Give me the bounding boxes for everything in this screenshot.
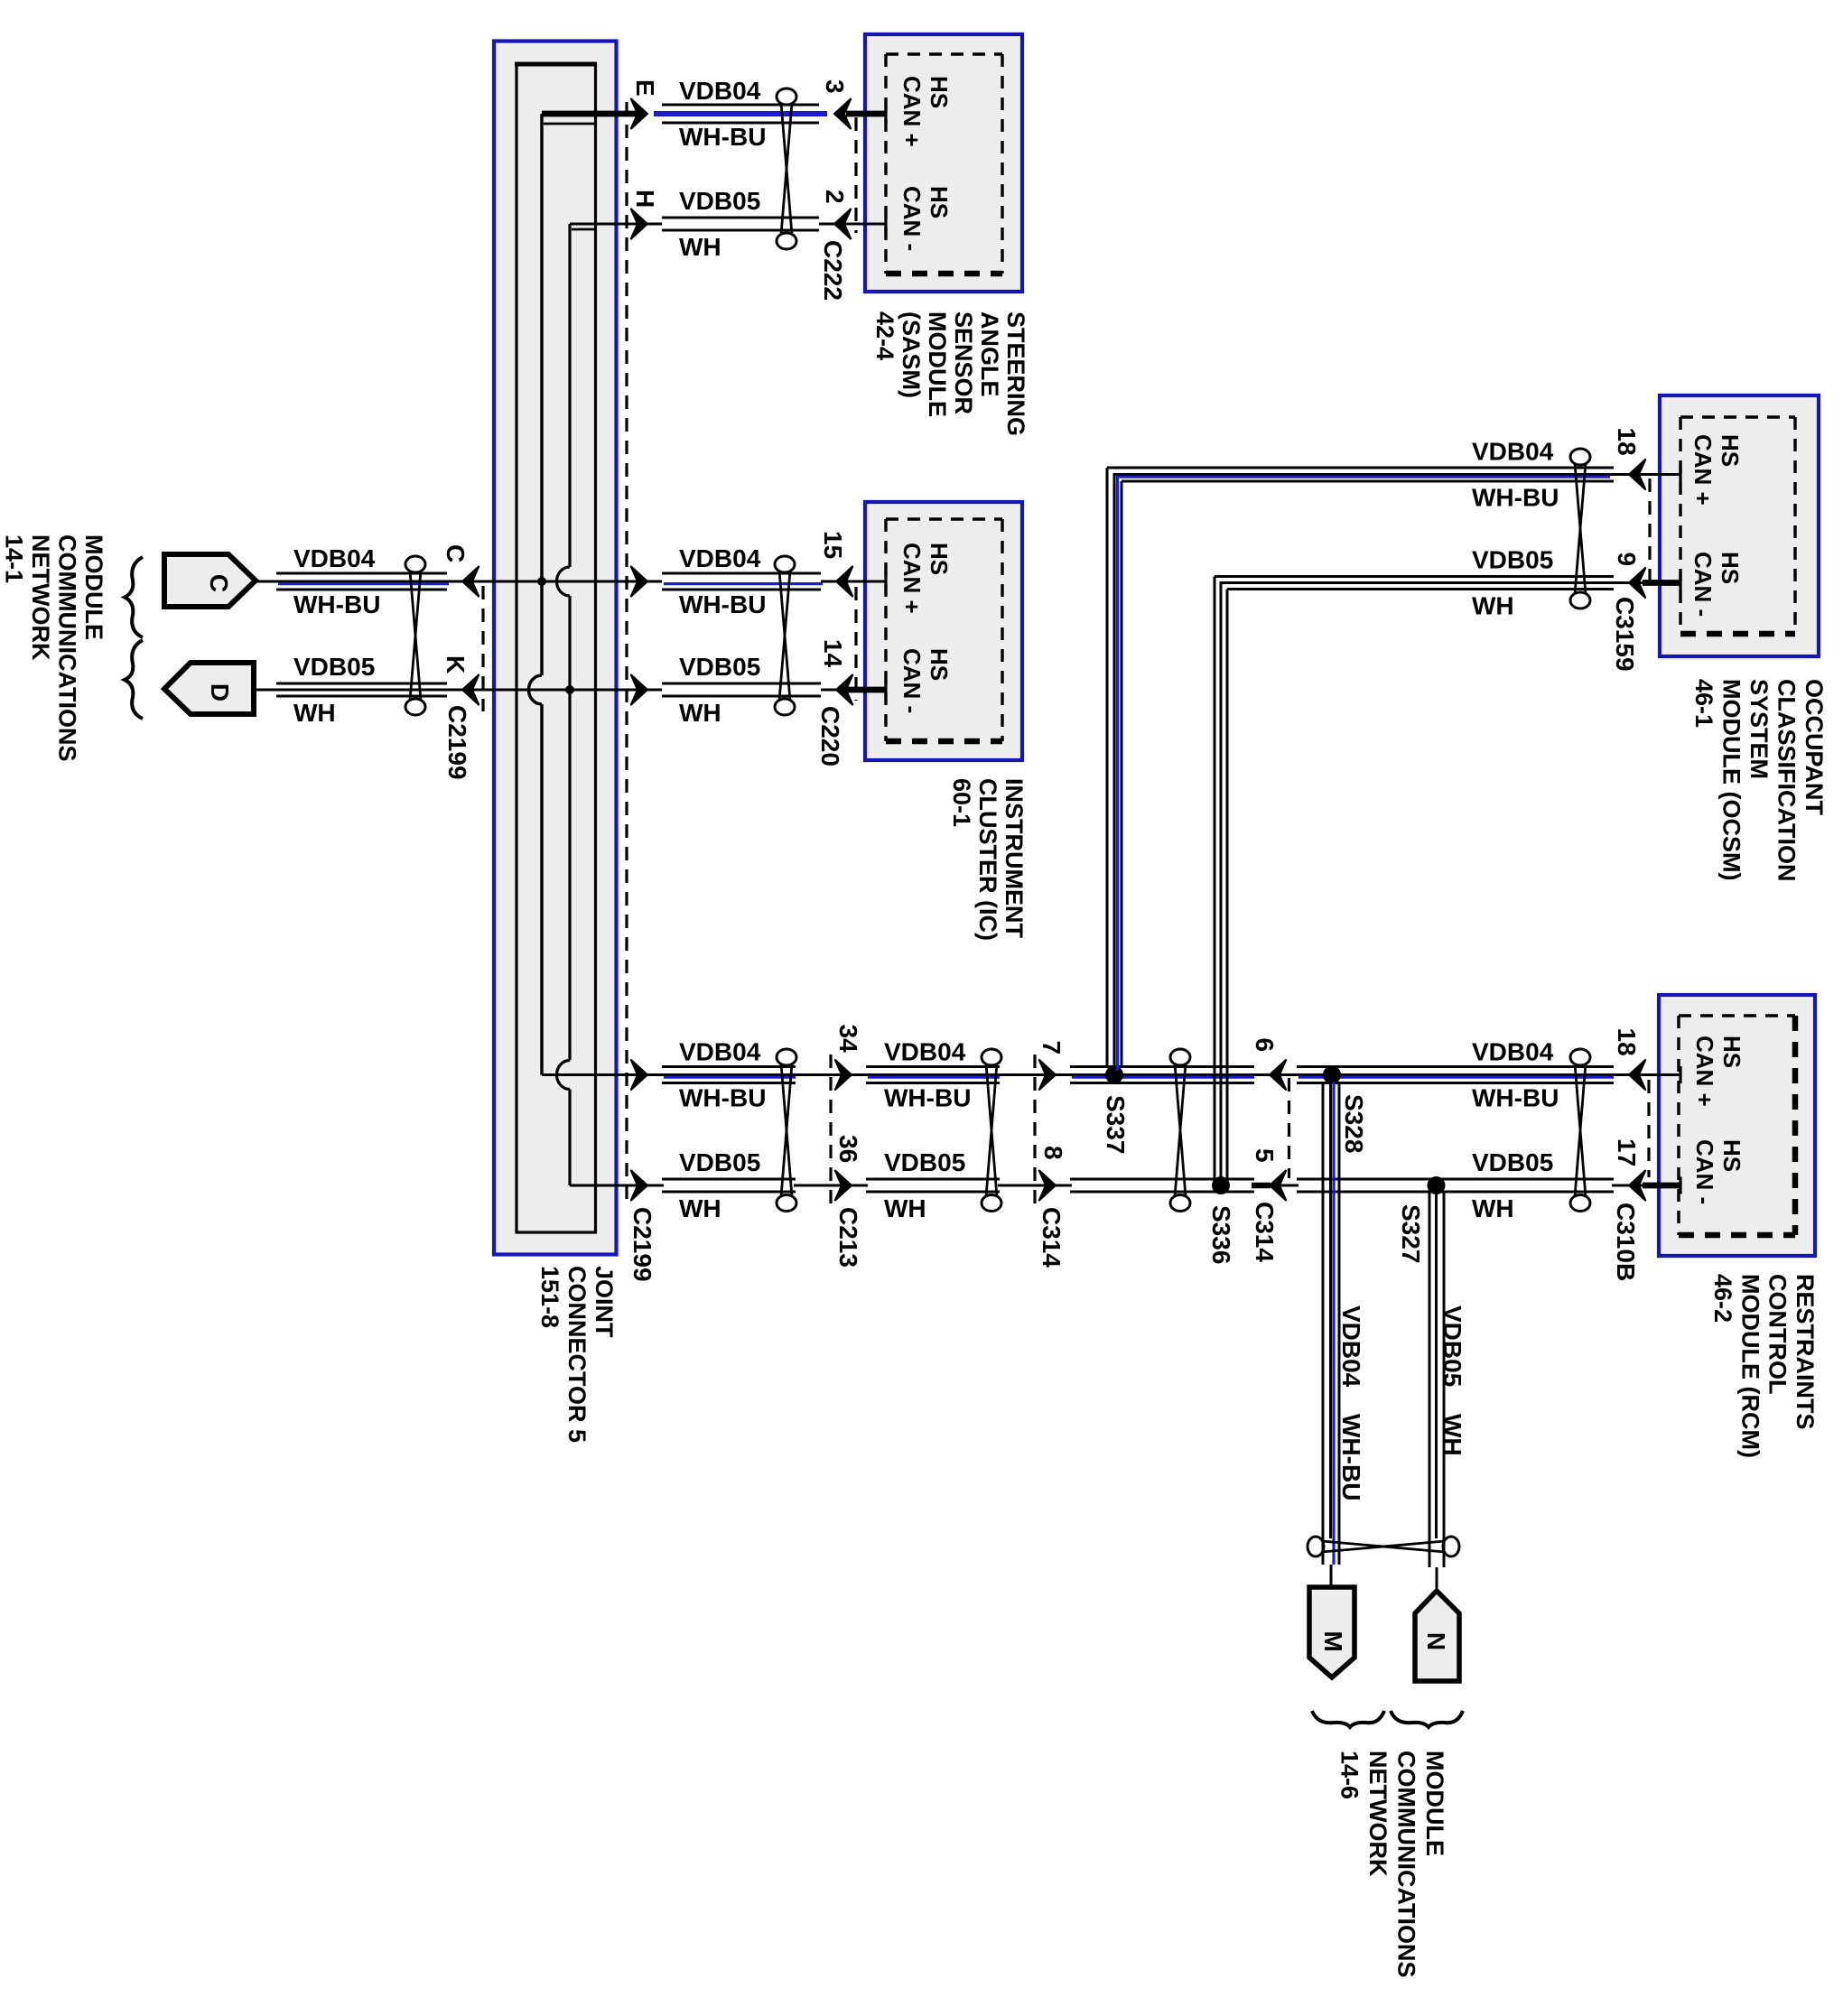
svg-text:42-4: 42-4 <box>871 311 898 360</box>
wire VDB05 to OCSM center <box>1221 583 1616 1179</box>
svg-text:CLASSIFICATION: CLASSIFICATION <box>1773 679 1801 882</box>
svg-text:WH-BU: WH-BU <box>679 1084 766 1112</box>
arrow at C2199 pin K <box>462 674 479 705</box>
wire VDB05 J span4 outlines <box>1297 1178 1614 1181</box>
wire VDB04 drop from S328 center <box>1329 1075 1332 1539</box>
wire VDB04 D span1 outlines <box>662 1065 796 1068</box>
wire VDB05 K outlines left span <box>276 683 447 685</box>
svg-text:RESTRAINTS: RESTRAINTS <box>1792 1274 1819 1430</box>
off-page connector M <box>1309 1587 1354 1677</box>
arrow at pin J <box>631 1170 648 1201</box>
twisted pair symbol C314 first <box>982 1049 1001 1065</box>
arrow at pin H <box>631 209 648 239</box>
svg-text:VDB05: VDB05 <box>679 187 760 215</box>
wire stub into SASM pin 2 <box>819 223 886 226</box>
off-page connector D <box>164 663 254 714</box>
svg-text:HS: HS <box>1718 1036 1745 1068</box>
wire VDB04 D span4 blue <box>1298 1075 1614 1078</box>
wire VDB04 D span4 outlines <box>1297 1065 1614 1068</box>
joint connector bus companion line H <box>572 228 594 231</box>
svg-text:STEERING: STEERING <box>1002 311 1029 436</box>
twisted pair symbol C2199 <box>405 556 425 572</box>
svg-text:ANGLE: ANGLE <box>976 311 1003 397</box>
bus VDB05 hop over wire D <box>557 1061 571 1090</box>
wire VDB04 C outlines left span <box>276 572 447 575</box>
twisted pair symbol C314 second <box>1170 1049 1190 1065</box>
svg-text:MODULE (RCM): MODULE (RCM) <box>1736 1274 1764 1458</box>
svg-text:WH: WH <box>293 699 336 727</box>
svg-text:VDB04: VDB04 <box>679 544 761 572</box>
svg-text:INSTRUMENT: INSTRUMENT <box>1001 778 1028 938</box>
svg-text:WH: WH <box>1472 592 1514 620</box>
wire VDB04 E to SASM bold blue <box>654 111 827 116</box>
svg-text:HS: HS <box>926 648 953 681</box>
svg-text:WH: WH <box>679 699 721 727</box>
wire VDB04 center C to IC <box>256 581 662 583</box>
svg-text:60-1: 60-1 <box>948 778 975 827</box>
off-page connector C <box>164 554 256 607</box>
svg-text:COMMUNICATIONS: COMMUNICATIONS <box>54 534 81 761</box>
arrow at C314 pin 8 <box>1039 1170 1056 1201</box>
svg-text:D: D <box>206 683 234 701</box>
wire VDB04 center row D <box>542 1073 1644 1076</box>
svg-text:WH: WH <box>1472 1194 1514 1222</box>
svg-text:C222: C222 <box>819 240 847 301</box>
wire VDB05 drop from S327 center <box>1435 1185 1438 1538</box>
twisted pair symbol C220 <box>775 556 795 572</box>
pin tick SASM 3 <box>884 106 887 123</box>
pin tick IC 14 <box>884 682 887 699</box>
pin tick RCM 17 <box>1679 1177 1681 1194</box>
arrow at pin E <box>631 98 648 129</box>
svg-text:HS: HS <box>1717 434 1744 467</box>
wire VDB05 to OCSM outlines horizontal <box>1215 575 1614 578</box>
svg-text:MODULE: MODULE <box>80 534 107 640</box>
svg-text:CAN +: CAN + <box>1689 434 1717 506</box>
bus VDB04 hop over wire K-M <box>529 675 543 704</box>
pin tick RCM 18 <box>1679 1066 1681 1083</box>
svg-text:VDB04: VDB04 <box>679 1038 761 1066</box>
splice S336 <box>1212 1176 1230 1194</box>
wire VDB04 bold segment joint connector to arrow E <box>542 111 645 117</box>
svg-text:CAN -: CAN - <box>898 648 926 713</box>
wire VDB04 drop blue <box>1332 1082 1335 1565</box>
dashed connector face C2199 right side of joint connector <box>625 102 628 1203</box>
dashed connector face C3159 <box>1648 478 1651 589</box>
twisted pair symbol SASM <box>777 88 796 105</box>
wire VDB05 center D to IC <box>254 689 662 692</box>
svg-text:WH-BU: WH-BU <box>1472 484 1559 512</box>
svg-text:WH-BU: WH-BU <box>293 590 380 618</box>
svg-text:E: E <box>631 79 659 97</box>
arrow at IC pin 14 <box>836 674 853 705</box>
module box RCM <box>1659 995 1815 1256</box>
svg-text:SYSTEM: SYSTEM <box>1745 679 1773 779</box>
pin tick OCSM 18 <box>1679 466 1681 483</box>
svg-text:C2199: C2199 <box>443 705 471 780</box>
svg-text:14-1: 14-1 <box>1 534 28 583</box>
wire VDB05 M outlines <box>662 683 821 685</box>
wire VDB05 J span2 outlines <box>866 1178 1000 1181</box>
wire VDB04 to OCSM blue <box>1118 477 1611 1070</box>
svg-text:WH-BU: WH-BU <box>679 590 766 618</box>
module OCSM inner dashed outline <box>1680 415 1795 418</box>
wire VDB04 D span2 blue <box>868 1075 1000 1078</box>
arrow at SASM pin 3 <box>834 98 852 129</box>
module IC inner dashed outline <box>886 517 1002 520</box>
bus VDB05 inside joint connector <box>568 224 571 567</box>
splice S328 <box>1323 1066 1341 1084</box>
svg-text:N: N <box>1422 1632 1450 1650</box>
pin tick IC 15 <box>884 573 887 590</box>
harness brace bottom right <box>1391 1711 1463 1727</box>
arrow at pin A <box>631 566 648 597</box>
wire stub into RCM pin 18 <box>1614 1073 1680 1076</box>
joint connector bus companion line E <box>544 123 594 125</box>
wire VDB05 drop outlines <box>1429 1193 1431 1567</box>
svg-text:HS: HS <box>926 543 953 575</box>
dashed connector face C310B <box>1647 1080 1650 1177</box>
harness brace lower <box>125 640 143 719</box>
svg-text:18: 18 <box>1613 1028 1641 1056</box>
wire VDB04 to OCSM outlines horizontal <box>1107 467 1614 469</box>
wire VDB04 to OCSM center <box>1114 475 1680 1071</box>
svg-text:VDB05: VDB05 <box>1472 1148 1553 1176</box>
splice S337 <box>1105 1066 1123 1084</box>
svg-text:151-8: 151-8 <box>536 1266 563 1328</box>
svg-text:MODULE: MODULE <box>924 311 951 417</box>
wire VDB05 J segment from bus <box>570 1185 664 1187</box>
bus VDB05 hop over wire A <box>557 567 571 596</box>
svg-text:6: 6 <box>1251 1038 1279 1053</box>
wire VDB04 OCSM vertical outlines <box>1106 468 1109 1067</box>
svg-text:S328: S328 <box>1340 1094 1368 1153</box>
svg-text:(SASM): (SASM) <box>898 311 925 398</box>
svg-text:S336: S336 <box>1207 1205 1235 1264</box>
arrow at C213 pin 34 <box>835 1060 852 1091</box>
svg-text:C: C <box>442 544 470 562</box>
svg-text:WH-BU: WH-BU <box>1337 1414 1365 1500</box>
svg-text:CAN +: CAN + <box>898 543 926 614</box>
svg-text:MODULE (OCSM): MODULE (OCSM) <box>1718 679 1745 880</box>
arrow at OCSM pin 18 <box>1629 460 1646 490</box>
arrow at pin D <box>631 1060 648 1091</box>
svg-text:VDB04: VDB04 <box>884 1038 966 1066</box>
svg-text:18: 18 <box>1613 428 1641 456</box>
svg-text:JOINT: JOINT <box>591 1266 618 1338</box>
svg-text:WH-BU: WH-BU <box>679 123 766 151</box>
svg-text:VDB05: VDB05 <box>679 653 760 681</box>
wire VDB05 J span3 outlines <box>1070 1178 1254 1181</box>
svg-text:C: C <box>205 574 233 592</box>
svg-text:WH: WH <box>1438 1414 1466 1456</box>
wire stub into OCSM pin 9 <box>1612 581 1649 584</box>
dashed connector face C314 first <box>1033 1054 1036 1208</box>
svg-text:WH-BU: WH-BU <box>1472 1084 1559 1112</box>
svg-text:VDB05: VDB05 <box>884 1148 965 1176</box>
twisted pair symbol C3159 <box>1570 449 1590 465</box>
module box IC <box>865 502 1022 760</box>
wire bold stub into RCM pin 17 <box>1643 1183 1680 1189</box>
wire VDB04 D span3 blue <box>1072 1075 1254 1078</box>
wire VDB05 J span1 outlines <box>662 1178 796 1181</box>
svg-text:S327: S327 <box>1397 1204 1425 1263</box>
svg-text:HS: HS <box>1718 1139 1745 1172</box>
svg-text:34: 34 <box>834 1025 862 1054</box>
module box OCSM <box>1660 395 1819 656</box>
svg-text:WH: WH <box>679 1194 721 1222</box>
dashed connector face C220 <box>854 587 857 701</box>
bus VDB04 inside joint connector <box>540 114 544 675</box>
wire VDB05 H segment from bus <box>570 223 662 226</box>
pin tick OCSM 9 <box>1679 574 1681 591</box>
svg-text:SENSOR: SENSOR <box>950 311 977 414</box>
svg-text:NETWORK: NETWORK <box>27 534 54 661</box>
svg-text:VDB05: VDB05 <box>1438 1305 1466 1387</box>
svg-text:OCCUPANT: OCCUPANT <box>1801 679 1828 815</box>
wire VDB05 J link1 <box>794 1185 868 1187</box>
svg-text:17: 17 <box>1613 1138 1641 1166</box>
pin tick SASM 2 <box>884 216 887 233</box>
svg-text:K: K <box>442 655 470 674</box>
svg-text:M: M <box>1319 1630 1347 1651</box>
module SASM inner dashed outline <box>886 52 1002 55</box>
wire VDB05 J link3 <box>1252 1185 1298 1187</box>
harness brace bottom left <box>1312 1711 1384 1727</box>
svg-text:VDB05: VDB05 <box>293 653 375 681</box>
module box SASM <box>865 34 1022 292</box>
svg-text:NETWORK: NETWORK <box>1364 1751 1392 1877</box>
svg-text:VDB04: VDB04 <box>679 77 761 105</box>
svg-text:MODULE: MODULE <box>1421 1751 1448 1856</box>
svg-text:46-1: 46-1 <box>1690 679 1717 728</box>
svg-text:C310B: C310B <box>1612 1203 1640 1281</box>
svg-text:VDB04: VDB04 <box>1472 1038 1554 1066</box>
svg-text:C213: C213 <box>834 1207 862 1268</box>
arrow at SASM pin 2 <box>834 209 852 239</box>
svg-text:VDB04: VDB04 <box>1337 1305 1365 1388</box>
harness brace upper <box>125 557 143 637</box>
svg-text:WH: WH <box>679 233 721 261</box>
wire VDB04 A blue <box>664 582 823 585</box>
arrow at RCM pin 17 <box>1629 1170 1646 1201</box>
svg-text:C2199: C2199 <box>628 1207 656 1282</box>
wire bold stub into SASM pin 3 <box>846 111 886 117</box>
svg-text:HS: HS <box>1717 552 1744 584</box>
wire stub into IC pin 14 <box>821 689 854 692</box>
dashed connector face C314 second <box>1288 1078 1290 1178</box>
svg-text:46-2: 46-2 <box>1709 1274 1736 1323</box>
svg-text:8: 8 <box>1039 1146 1067 1160</box>
svg-text:7: 7 <box>1038 1041 1066 1055</box>
svg-text:CAN -: CAN - <box>898 186 926 251</box>
svg-text:HS: HS <box>926 186 953 218</box>
dashed connector face C2199 left <box>481 586 484 711</box>
arrow at C314 pin 5 <box>1270 1170 1287 1201</box>
wire VDB04 D span2 outlines <box>866 1065 1000 1068</box>
dashed connector face C213 <box>829 1054 832 1208</box>
svg-text:36: 36 <box>834 1135 862 1163</box>
wire VDB04 D span3 outlines <box>1070 1065 1254 1068</box>
wire bold stub into IC pin 14 <box>848 687 886 693</box>
svg-text:CONTROL: CONTROL <box>1764 1274 1792 1394</box>
wire VDB04 A outlines <box>662 572 821 575</box>
svg-text:3: 3 <box>821 79 849 94</box>
module RCM inner dashed outline <box>1679 1014 1795 1017</box>
arrow at IC pin 15 <box>836 566 853 597</box>
svg-text:CAN +: CAN + <box>1691 1036 1718 1107</box>
svg-text:C314: C314 <box>1251 1202 1279 1262</box>
svg-text:COMMUNICATIONS: COMMUNICATIONS <box>1393 1751 1420 1977</box>
wire VDB05 tail to N <box>1436 1567 1438 1593</box>
svg-text:CONNECTOR 5: CONNECTOR 5 <box>563 1266 591 1443</box>
wire VDB05 OCSM vertical outlines <box>1214 577 1216 1179</box>
svg-text:CLUSTER (IC): CLUSTER (IC) <box>974 778 1001 941</box>
svg-text:C3159: C3159 <box>1611 597 1639 672</box>
joint connector inner top edge bold <box>515 62 597 67</box>
junction bus VDB05 / wire M <box>565 685 574 694</box>
svg-text:CAN -: CAN - <box>1691 1139 1718 1204</box>
arrow at C213 pin 36 <box>835 1170 852 1201</box>
wire bold stub at C314 pin 5 <box>1252 1183 1271 1189</box>
svg-text:14-6: 14-6 <box>1336 1751 1364 1799</box>
wire VDB04 C blue left span <box>278 582 449 585</box>
twisted pair symbol C213 <box>777 1049 796 1065</box>
svg-text:15: 15 <box>819 531 847 559</box>
arrow at OCSM pin 9 <box>1629 568 1646 599</box>
wire VDB04 E to SASM outlines <box>662 104 819 107</box>
svg-text:H: H <box>631 190 659 208</box>
svg-text:2: 2 <box>821 190 849 204</box>
off-page connector N <box>1415 1591 1459 1681</box>
svg-text:9: 9 <box>1613 553 1641 567</box>
arrow at C314 pin 7 <box>1039 1060 1056 1091</box>
wire VDB04 D span1 blue <box>664 1075 796 1078</box>
svg-text:WH-BU: WH-BU <box>884 1084 971 1112</box>
svg-text:S337: S337 <box>1102 1095 1130 1154</box>
dashed connector face C222 <box>854 117 857 233</box>
arrow at pin M <box>631 674 648 705</box>
wire VDB05 H outlines <box>662 217 819 219</box>
svg-text:HS: HS <box>926 76 953 108</box>
svg-text:5: 5 <box>1251 1148 1279 1163</box>
arrow at RCM pin 18 <box>1629 1060 1646 1091</box>
svg-text:14: 14 <box>819 639 847 668</box>
wire stub into IC pin 15 <box>821 581 886 583</box>
svg-text:VDB05: VDB05 <box>679 1148 760 1176</box>
svg-text:VDB05: VDB05 <box>1472 546 1553 574</box>
wire bold stub into OCSM pin 9 <box>1643 580 1680 586</box>
svg-text:C314: C314 <box>1038 1207 1066 1268</box>
wire stub into RCM pin 17 <box>1612 1185 1649 1187</box>
junction bus VDB04 / wire A <box>537 577 546 586</box>
svg-text:CAN +: CAN + <box>898 76 926 147</box>
wire VDB04 drop outlines <box>1322 1083 1325 1565</box>
svg-text:WH: WH <box>884 1194 926 1222</box>
svg-text:CAN -: CAN - <box>1689 552 1717 617</box>
joint connector 5 box <box>494 42 617 1255</box>
wire VDB04 tail to M <box>1330 1565 1333 1587</box>
svg-text:VDB04: VDB04 <box>1472 438 1554 466</box>
joint connector 5 inner outline <box>517 64 596 1232</box>
svg-text:VDB04: VDB04 <box>293 544 376 572</box>
svg-text:C220: C220 <box>816 706 844 766</box>
splice S327 <box>1428 1176 1446 1194</box>
arrow at C2199 pin C <box>462 566 479 597</box>
wire VDB05 J link2 <box>998 1185 1072 1187</box>
twisted pair symbol network 14-6 <box>1308 1537 1324 1556</box>
twisted pair symbol C310B <box>1570 1049 1590 1065</box>
arrow at C314 pin 6 <box>1270 1060 1287 1091</box>
